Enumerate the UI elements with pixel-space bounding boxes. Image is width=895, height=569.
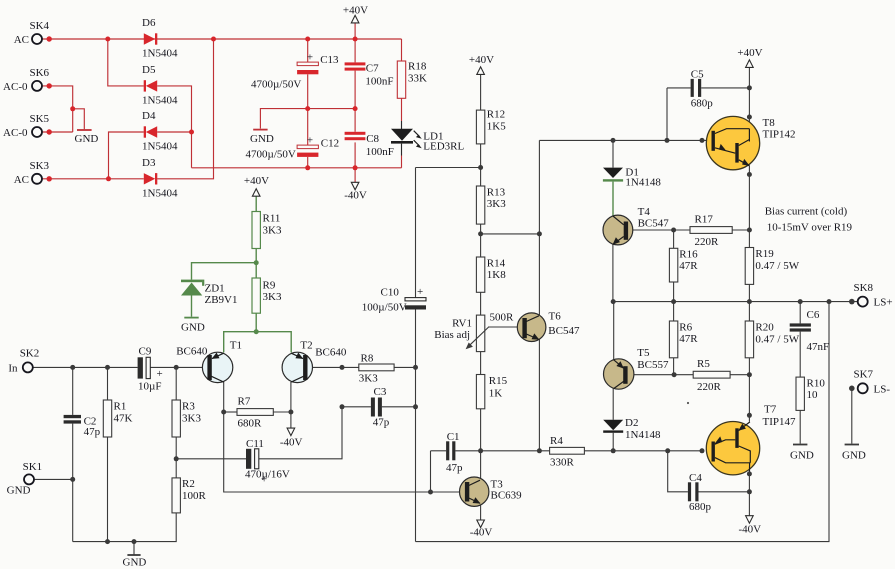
junction (539.4,233.9) [537, 231, 542, 236]
junction (749.4,473.9) [747, 471, 752, 476]
transistor T5 BC557 [604, 347, 669, 389]
connector SK6 [3, 67, 52, 93]
wire center tap to GND [73, 109, 85, 130]
wire T4 emitter down to rail [612, 245, 614, 302]
junction (667.7,450.8) [665, 448, 670, 453]
svg-text:C11: C11 [246, 438, 264, 450]
wire SK2 input line [33, 366, 138, 368]
svg-text:LED3RL: LED3RL [423, 141, 464, 153]
transistor T8 TIP142 (darlington) [706, 116, 795, 169]
svg-text:BC547: BC547 [638, 218, 670, 230]
svg-text:+: + [417, 286, 423, 298]
svg-text:+: + [307, 52, 313, 64]
wire SK7 to GND [851, 388, 853, 443]
svg-text:SK2: SK2 [20, 348, 40, 360]
svg-text:GND: GND [842, 450, 866, 462]
junction (342,406.8) [340, 404, 345, 409]
wire R9 to emitter rail [255, 313, 257, 332]
resistor R5 220R [693, 358, 730, 393]
svg-text:-40V: -40V [344, 190, 367, 202]
svg-text:T7: T7 [764, 404, 777, 416]
svg-text:680p: 680p [689, 501, 712, 513]
junction (355.1,108.6) [353, 106, 358, 111]
svg-text:C13: C13 [320, 54, 339, 66]
wire T6 emitter down to R4 line [538, 339, 540, 451]
wire SK5 stub [42, 131, 73, 133]
junction (72.7,479.4) [70, 477, 75, 482]
svg-text:1N4148: 1N4148 [625, 177, 661, 189]
transistor T7 TIP147 (darlington) [706, 404, 796, 475]
power -40V (T7) [738, 516, 761, 536]
resistor R15 1K [476, 375, 507, 409]
junction (667,140.4) [665, 138, 670, 143]
junction dots (input stage) [70, 365, 418, 544]
capacitor C7 100nF [345, 62, 394, 87]
transistor T2 BC640 [282, 340, 347, 383]
svg-text:47p: 47p [84, 426, 101, 438]
junction (307.7,39) [305, 37, 310, 42]
svg-text:ZD1: ZD1 [205, 283, 225, 295]
junction (191.5,132) [189, 130, 194, 135]
svg-text:LS+: LS+ [874, 297, 893, 309]
capacitor C1 47p [446, 431, 463, 474]
svg-text:10µF: 10µF [138, 381, 161, 393]
wire C5 left branch [667, 87, 691, 89]
wire SK6 to center tap [42, 86, 73, 132]
wire GND stub bottom [133, 542, 135, 555]
svg-text:AC: AC [14, 174, 29, 186]
wire D4 cathode to SK3 line [109, 132, 144, 179]
resistor R12 1K5 [476, 109, 506, 144]
svg-text:R16: R16 [679, 249, 698, 261]
svg-text:R2: R2 [182, 478, 195, 490]
svg-text:BC640: BC640 [315, 347, 347, 359]
svg-text:0.47 / 5W: 0.47 / 5W [755, 260, 799, 272]
svg-text:T2: T2 [300, 340, 312, 352]
svg-text:RV1: RV1 [452, 318, 472, 330]
wire bottom feedback rail [416, 302, 830, 542]
wire node to ZD1 [192, 263, 257, 280]
power -40V (red rail) [344, 182, 367, 201]
svg-text:47nF: 47nF [807, 341, 830, 353]
capacitor C13 4700u/50V [251, 52, 339, 91]
junction (72.7,367.4) [70, 365, 75, 370]
svg-text:220R: 220R [695, 236, 720, 248]
wire SK4 tap down to D5 [108, 39, 144, 86]
wire T1 collector down and to T3 base [224, 382, 460, 492]
wire output mid rail [613, 301, 858, 303]
junction (480.6,450.8) [478, 448, 483, 453]
potentiometer RV1 500R Bias adj [434, 312, 514, 352]
wire C5 right [701, 87, 749, 89]
svg-text:D5: D5 [142, 64, 156, 76]
svg-text:1K: 1K [489, 388, 503, 400]
junction dots (red section) [70, 37, 357, 182]
wire C7/C8 column [354, 23, 356, 62]
svg-text:SK4: SK4 [30, 20, 50, 32]
svg-text:100µ/50V: 100µ/50V [362, 302, 407, 314]
wire T8 base line [539, 139, 711, 141]
wire D2 column [612, 433, 614, 451]
svg-text:T5: T5 [637, 347, 650, 359]
svg-text:SK8: SK8 [854, 282, 874, 294]
resistor R11 3K3 [252, 212, 282, 249]
wire bootstrap column C10 [415, 168, 417, 298]
svg-text:R3: R3 [182, 401, 195, 413]
svg-text:GND: GND [7, 485, 31, 497]
svg-text:D4: D4 [142, 110, 156, 122]
svg-text:330R: 330R [550, 457, 575, 469]
junction (702,450.8) [700, 448, 705, 453]
junction dots (output) [611, 85, 832, 494]
resistor R7 680R [237, 396, 273, 430]
junction (107.8,39) [105, 37, 110, 42]
junction (673.6,230) [671, 228, 676, 233]
svg-text:R13: R13 [487, 187, 506, 199]
wire RV1 wiper to T6 base [488, 326, 518, 328]
svg-text:3K3: 3K3 [359, 373, 378, 385]
junction (613,140.4) [611, 138, 616, 143]
junction (480.6,233.9) [478, 231, 483, 236]
svg-text:+40V: +40V [737, 47, 762, 59]
resistor R3 3K3 [172, 400, 201, 437]
svg-text:10: 10 [807, 389, 819, 401]
junction dots (green) [254, 260, 259, 334]
svg-text:-40V: -40V [470, 527, 493, 539]
wire R18 column [401, 39, 403, 61]
junction (749.4,415.3) [747, 413, 752, 418]
svg-text:C1: C1 [447, 431, 460, 443]
svg-text:R5: R5 [697, 358, 710, 370]
svg-text:TIP142: TIP142 [763, 129, 796, 141]
wire R12 bottom node [480, 144, 482, 186]
junction (430.5,492) [428, 490, 433, 495]
wire node to T6 collector column [481, 233, 540, 235]
junction (256.2,262.7) [254, 260, 259, 265]
svg-text:47p: 47p [373, 417, 390, 429]
junction (307.7,167.8) [305, 165, 310, 170]
wire T2 collector to -40V [290, 382, 292, 428]
svg-text:AC: AC [14, 34, 29, 46]
wire node to C10 top [416, 167, 481, 169]
capacitor C6 47nF [790, 309, 829, 353]
ground bar (ZD1) [184, 317, 198, 319]
svg-text:SK7: SK7 [854, 369, 874, 381]
junction (107.5,541.6) [105, 539, 110, 544]
junction (480.6,167.5) [478, 165, 483, 170]
transistor T1 BC640 [176, 340, 242, 383]
svg-text:+: + [307, 135, 313, 147]
power -40V (T2 collector) [280, 428, 303, 448]
svg-text:R7: R7 [238, 396, 251, 408]
wire R2 bottom rail (GND rail) [73, 513, 177, 542]
wire R13 bottom / R14 top node [480, 224, 482, 257]
wire ZD1 to GND [191, 296, 193, 317]
wire C11 right up to T2 emitter line [259, 407, 342, 459]
svg-text:R4: R4 [550, 435, 563, 447]
svg-text:GND: GND [250, 133, 274, 145]
resistor R1 47K [103, 400, 132, 437]
wire C9 to T1 base [150, 366, 203, 368]
connector SK8 [849, 282, 893, 309]
svg-text:SK5: SK5 [30, 113, 50, 125]
svg-text:SK3: SK3 [30, 160, 50, 172]
resistor R10 10 [796, 377, 825, 410]
wire +40V to R11 [255, 196, 257, 211]
resistor R20 0.47/5W [745, 321, 800, 358]
junction (223.7,412) [221, 410, 226, 415]
svg-text:C3: C3 [374, 386, 387, 398]
capacitor C3 47p [371, 386, 390, 429]
wire T7 collector down to C4 node and -40V [748, 474, 750, 516]
wire T2 base to R8 [312, 366, 358, 368]
wire C2 branch [72, 367, 74, 415]
power -40V (T3) [470, 520, 493, 539]
wire R17 line [674, 229, 690, 231]
svg-text:ZB9V1: ZB9V1 [205, 294, 238, 306]
junction dots (VAS) [428, 138, 677, 495]
svg-text:R17: R17 [695, 214, 714, 226]
svg-text:33K: 33K [408, 73, 427, 85]
svg-text:47K: 47K [114, 413, 133, 425]
svg-text:AC-0: AC-0 [3, 81, 28, 93]
wire R14 to RV1 to R15 [480, 292, 482, 315]
wire T6 collector column [538, 140, 540, 315]
wire T3 emitter to -40V [480, 504, 482, 520]
junction (342,367.4) [340, 365, 345, 370]
wire D4 anode to node [157, 131, 191, 133]
svg-text:BC640: BC640 [176, 346, 208, 358]
svg-text:C5: C5 [691, 69, 704, 81]
wire top rail +40V y=39 [42, 38, 402, 40]
svg-text:47R: 47R [679, 260, 698, 272]
wire T1/T2 emitter rail [224, 332, 292, 353]
ground bar (SK5/SK6 center tap) [77, 129, 92, 131]
connector SK1 [7, 461, 43, 497]
svg-text:R8: R8 [361, 353, 374, 365]
svg-text:1N5404: 1N5404 [142, 187, 178, 199]
svg-text:SK1: SK1 [23, 461, 43, 473]
svg-text:1N4148: 1N4148 [625, 429, 661, 441]
wire C4 branch [668, 451, 688, 492]
junction (674.1,374.7) [672, 372, 677, 377]
svg-text:GND: GND [123, 557, 147, 569]
svg-text:680R: 680R [238, 418, 263, 430]
wire T5 base to R6/R5 node [628, 374, 675, 376]
wire T4 base to R16/R17 node [628, 229, 674, 231]
capacitor C8 100nF [345, 132, 394, 158]
capacitor C5 680p [691, 69, 714, 110]
svg-text:BC547: BC547 [548, 325, 580, 337]
resistor R4 330R [550, 435, 585, 469]
junction (749.4,174.5) [747, 172, 752, 177]
power +40V (T8) [737, 47, 762, 67]
svg-text:GND: GND [181, 322, 205, 334]
svg-text:Bias adj: Bias adj [434, 329, 470, 341]
wire D1 top to T8 base line [612, 140, 614, 167]
junction (355.1,167.8) [353, 165, 358, 170]
wire -40V stub [354, 168, 356, 182]
connector SK2 [8, 348, 39, 375]
junction (415.5,406.8) [413, 404, 418, 409]
svg-text:BC639: BC639 [491, 490, 523, 502]
wire R1 branch [107, 367, 109, 400]
svg-text:BC557: BC557 [637, 359, 669, 371]
resistor R14 1K8 [476, 257, 506, 292]
junction (749.4,301.6) [747, 299, 752, 304]
junction (307.7,108.6) [305, 106, 310, 111]
svg-text:1K8: 1K8 [487, 269, 506, 281]
junction (176.2,458.8) [174, 456, 179, 461]
wire SK1 [34, 478, 73, 480]
wire R20/R5 node down to T7 emitter [748, 375, 750, 422]
svg-text:+40V: +40V [244, 175, 269, 187]
transistor T4 BC547 [603, 206, 669, 245]
ground bar (bottom) [127, 554, 140, 556]
wire C3 line [342, 406, 371, 408]
svg-text:D3: D3 [142, 157, 156, 169]
ground bar (SK7) [845, 444, 859, 446]
svg-text:T6: T6 [549, 311, 562, 323]
wire R3 bottom to C11 node and R2 [175, 437, 177, 478]
svg-text:C4: C4 [689, 472, 702, 484]
svg-text:TIP147: TIP147 [763, 416, 797, 428]
svg-text:3K3: 3K3 [263, 291, 282, 303]
svg-text:R9: R9 [263, 280, 276, 292]
svg-text:3K3: 3K3 [182, 413, 201, 425]
wire C11 left [176, 458, 246, 460]
wire R19 bottom [748, 284, 750, 301]
svg-text:C9: C9 [139, 346, 152, 358]
svg-text:C6: C6 [807, 309, 820, 321]
capacitor C4 680p [688, 472, 712, 513]
diode D6 1N5404 [142, 17, 178, 60]
diode D5 1N5404 [142, 64, 178, 106]
svg-text:47p: 47p [446, 462, 463, 474]
svg-text:R18: R18 [408, 61, 427, 73]
capacitor C10 100u/50V [362, 286, 426, 314]
wire R15 bottom to C1 node [480, 409, 482, 451]
wire T8 emitter down to R19 and R17 line [748, 166, 750, 248]
resistor R17 220R [690, 214, 732, 249]
resistor R9 3K3 [252, 278, 282, 313]
junction (749.4,374.7) [747, 372, 752, 377]
svg-text:100nF: 100nF [366, 146, 394, 158]
svg-text:T1: T1 [230, 340, 242, 352]
diode D4 1N5404 [142, 110, 178, 153]
resistor R6 47R [669, 321, 698, 358]
wire C6 branch [799, 302, 801, 324]
svg-text:R11: R11 [263, 213, 281, 225]
svg-text:100R: 100R [182, 490, 207, 502]
svg-text:1N5404: 1N5404 [142, 48, 178, 60]
svg-text:GND: GND [790, 450, 814, 462]
connector SK3 [14, 160, 52, 186]
power +40V (bias) [244, 175, 269, 196]
junction (829,301.6) [827, 299, 832, 304]
wire +40V to R12 [480, 75, 482, 111]
transistor T3 BC639 [460, 477, 523, 506]
junction (134,541.6) [132, 539, 137, 544]
resistor R8 3K3 [359, 353, 394, 385]
junction (290.9,412) [288, 410, 293, 415]
svg-text:220R: 220R [697, 381, 722, 393]
svg-text:R6: R6 [679, 322, 692, 334]
resistor R13 3K3 [476, 186, 506, 224]
svg-text:3K3: 3K3 [263, 225, 282, 237]
wire C13 column [307, 39, 309, 62]
svg-text:C7: C7 [366, 63, 379, 75]
svg-text:+40V: +40V [343, 5, 368, 17]
svg-text:+40V: +40V [469, 54, 494, 66]
svg-text:4700µ/50V: 4700µ/50V [246, 149, 296, 161]
wire R5 line [674, 374, 693, 376]
svg-text:3K3: 3K3 [487, 198, 506, 210]
wire +40V to T8 collector [748, 68, 750, 88]
svg-text:500R: 500R [490, 312, 515, 324]
junction (72.7,108.8) [70, 106, 75, 111]
svg-text:100nF: 100nF [365, 76, 393, 88]
ground bar (mid rail) [253, 129, 267, 131]
svg-text:R15: R15 [489, 375, 508, 387]
svg-text:1N5404: 1N5404 [142, 94, 178, 106]
transistor T6 BC547 [517, 311, 580, 342]
svg-text:4700µ/50V: 4700µ/50V [251, 79, 301, 91]
junction (176.2,367.4) [174, 365, 179, 370]
wire bottom -40V rail [192, 167, 402, 169]
junction (213.5,39) [211, 37, 216, 42]
svg-text:0.47 / 5W: 0.47 / 5W [755, 334, 799, 346]
wire R8 right to bootstrap column [394, 366, 415, 368]
svg-text:680p: 680p [691, 98, 714, 110]
svg-text:D2: D2 [625, 417, 638, 429]
svg-text:Bias current (cold): Bias current (cold) [765, 206, 848, 218]
svg-text:AC-0: AC-0 [3, 127, 28, 139]
diode D2 1N4148 [603, 417, 661, 441]
svg-text:T8: T8 [763, 117, 776, 129]
capacitor C9 10uF [138, 346, 163, 393]
zener diode ZD1 ZB9V1 [181, 280, 238, 306]
svg-text:47R: 47R [679, 333, 698, 345]
resistor R19 0.47/5W [745, 248, 800, 285]
junction (107.5,367.4) [105, 365, 110, 370]
svg-text:R10: R10 [807, 378, 826, 390]
capacitor C2 47p [64, 415, 101, 438]
junction (108.5,178.8) [106, 176, 111, 181]
wire R16 [673, 230, 675, 248]
wire R7 ends [224, 411, 237, 413]
svg-text:In: In [8, 363, 18, 375]
svg-text:C10: C10 [381, 287, 400, 299]
wire mid rail GND to C13/C8 [260, 109, 355, 129]
svg-text:T4: T4 [638, 206, 651, 218]
resistor R16 47R [669, 248, 698, 282]
capacitor C11 470u/16V [245, 438, 290, 486]
svg-text:R1: R1 [114, 401, 127, 413]
diode D1 1N4148 (green cathode) [603, 167, 661, 216]
junction (749.4,87.9) [747, 85, 752, 90]
resistor R2 100R [172, 478, 207, 513]
svg-text:-40V: -40V [738, 524, 761, 536]
wire R10 to GND [799, 410, 801, 443]
wire R6 [673, 302, 675, 321]
svg-text:1K5: 1K5 [487, 121, 506, 133]
power +40V (red rail) [343, 5, 368, 23]
ground bar (R10) [793, 444, 807, 446]
wire D3 cathode up to +rail [157, 39, 213, 179]
svg-text:GND: GND [75, 133, 99, 145]
svg-text:R19: R19 [755, 248, 774, 260]
